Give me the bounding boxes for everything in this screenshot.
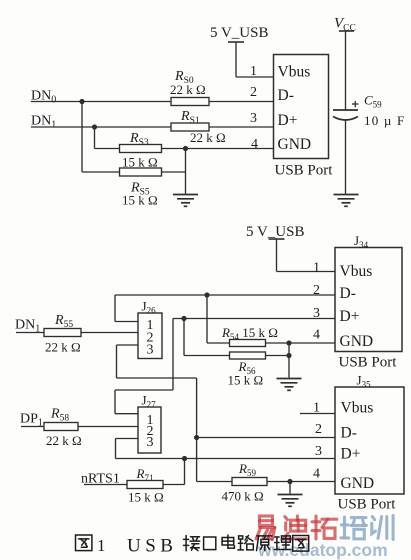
junction dot on D+ line xyxy=(181,316,186,321)
wire R55 to J26 pin2 xyxy=(81,332,138,334)
pin 3 number (J35) xyxy=(315,444,322,459)
svg-text:3: 3 xyxy=(315,444,322,459)
wire D- net line to J34 pin2 xyxy=(115,294,335,296)
pin 4 number (J35) xyxy=(313,467,320,482)
node DN1 label (top) xyxy=(31,114,56,131)
pin label D+ (P1) xyxy=(278,112,298,129)
svg-text:D+: D+ xyxy=(340,308,360,325)
resistor R55 xyxy=(44,313,81,355)
wire DP1 to R58 xyxy=(21,426,44,428)
wire J35 D- line xyxy=(197,437,335,439)
svg-text:470 k Ω: 470 k Ω xyxy=(222,489,264,504)
junction dot R59 right xyxy=(287,479,292,484)
resistor R58 xyxy=(44,407,82,449)
svg-text:D-: D- xyxy=(278,87,294,104)
power 5 V_USB (middle) xyxy=(246,224,305,272)
label USB Port (J34) xyxy=(339,355,398,371)
pin 3 number (J34) xyxy=(313,306,320,321)
svg-text:GND: GND xyxy=(278,136,312,153)
pin label D- (J34) xyxy=(340,285,356,302)
wire D+ left drop x173 xyxy=(172,319,174,391)
svg-text:22 k Ω: 22 k Ω xyxy=(170,82,206,97)
power VCC rail xyxy=(334,16,356,111)
junction dot on J35 D+ line xyxy=(182,456,187,461)
svg-text:22 k Ω: 22 k Ω xyxy=(190,130,226,145)
pin 1 number (J35) xyxy=(313,401,320,416)
pin 1 number (J34) xyxy=(313,261,320,276)
wire DN1 line xyxy=(31,126,171,128)
svg-text:22 k Ω: 22 k Ω xyxy=(46,433,82,448)
wire D- dot drop to R54 xyxy=(207,295,230,343)
wire RS5 to ground stem xyxy=(162,171,186,173)
wire J27 pin1 riser xyxy=(115,390,138,414)
svg-text:D-: D- xyxy=(341,425,357,442)
resistor RS5 xyxy=(120,168,162,208)
pin 4 number (P1) xyxy=(251,137,258,152)
svg-text:1: 1 xyxy=(250,64,257,79)
wire J35 D+ line xyxy=(116,458,336,460)
wire R58 to J27 pin2 xyxy=(78,426,138,428)
pin 4 number (J34) xyxy=(313,328,320,343)
wire DN1 dot to RS3 xyxy=(95,127,120,149)
wire J26 pin3 drop xyxy=(117,345,139,378)
junction dot R54 right xyxy=(286,340,291,345)
wire R71 to D+ dot riser xyxy=(163,459,185,485)
node DN1 label (middle) xyxy=(15,318,40,335)
svg-text:15 k Ω: 15 k Ω xyxy=(128,490,164,505)
pin 1 number (P1) xyxy=(250,64,257,79)
resistor RS0 xyxy=(170,69,209,106)
wire DN0 line xyxy=(31,101,171,103)
node DP1 label xyxy=(20,412,43,429)
node nRTS1 label xyxy=(81,472,120,487)
svg-text:15 k Ω: 15 k Ω xyxy=(122,193,158,208)
svg-text:USB Port: USB Port xyxy=(275,163,334,179)
pin 2 number (P1) xyxy=(250,85,257,100)
wire C59 to ground xyxy=(345,121,347,194)
svg-text:4: 4 xyxy=(313,328,320,343)
wire J26 pin1 riser xyxy=(115,295,138,322)
caption figure title xyxy=(76,535,309,557)
wire ground stem 4 xyxy=(289,482,291,494)
label J35 xyxy=(357,373,372,390)
pin 2 number (J34) xyxy=(313,283,320,298)
label J26 xyxy=(142,299,157,316)
wire H2 to J27 pin1 xyxy=(115,389,173,391)
wire RS0 to pin2 xyxy=(209,101,274,103)
junction dot right of RS3 xyxy=(183,146,188,151)
wire GND junction to J34 pin4 xyxy=(289,342,335,344)
node DN0 label xyxy=(31,89,56,106)
svg-text:USB Port: USB Port xyxy=(338,497,397,513)
wire R56 to GND junction xyxy=(266,355,290,357)
label USB Port (J35) xyxy=(338,497,397,513)
pin label GND (J35) xyxy=(341,475,375,492)
pin label D- (J35) xyxy=(341,425,357,442)
resistor RS3 xyxy=(120,131,162,170)
svg-text:2: 2 xyxy=(250,85,257,100)
label USB Port (P1) xyxy=(275,163,334,179)
USB port P1 box xyxy=(274,55,329,159)
connector J27 box xyxy=(138,407,161,453)
wire RS1 to pin3 xyxy=(209,126,274,128)
ground under RS3/RS5 xyxy=(173,195,198,207)
wire J27 pin3 drop xyxy=(116,439,139,459)
svg-text:15 k Ω: 15 k Ω xyxy=(228,373,264,388)
junction dot on DN1 line xyxy=(92,124,97,129)
svg-text:Vbus: Vbus xyxy=(341,400,374,417)
svg-text:D-: D- xyxy=(340,285,356,302)
wire riser to R59 xyxy=(197,481,232,483)
wire J35 pin1 stub xyxy=(300,413,335,415)
wire D+ dot drop to R56 xyxy=(184,319,230,356)
capacitor C59 xyxy=(333,93,405,129)
power 5 V_USB (top) xyxy=(210,25,269,77)
pin 2 number (J35) xyxy=(315,422,322,437)
resistor R56 xyxy=(228,352,266,388)
svg-text:GND: GND xyxy=(341,475,375,492)
svg-text:3: 3 xyxy=(147,435,154,450)
svg-text:4: 4 xyxy=(251,137,258,152)
wire DN1 to R55 xyxy=(16,332,44,334)
resistor RS1 xyxy=(171,109,226,145)
svg-text:1: 1 xyxy=(97,536,106,555)
pin label GND (P1) xyxy=(278,136,312,153)
svg-text:3: 3 xyxy=(250,111,257,126)
svg-text:GND: GND xyxy=(340,333,374,350)
junction dot R56 right xyxy=(286,353,291,358)
svg-text:1: 1 xyxy=(313,401,320,416)
pin label Vbus (J35) xyxy=(341,400,374,417)
svg-text:4: 4 xyxy=(313,467,320,482)
wire DN0 dot to RS5 xyxy=(82,102,120,173)
svg-text:Vbus: Vbus xyxy=(278,64,311,81)
svg-text:1: 1 xyxy=(313,261,320,276)
svg-text:15 k Ω: 15 k Ω xyxy=(122,155,158,170)
wire R59 to GND junction xyxy=(267,481,290,483)
svg-text:2: 2 xyxy=(313,283,320,298)
ground under R59 xyxy=(278,495,303,507)
pin label D- (P1) xyxy=(278,87,294,104)
resistor R71 xyxy=(127,466,164,505)
label J34 xyxy=(354,233,369,250)
pin label Vbus (P1) xyxy=(278,64,311,81)
wire nRTS1 to R71 xyxy=(84,484,127,486)
junction dot on DN0 line xyxy=(79,99,84,104)
connector J34 box xyxy=(335,248,402,352)
wire GND junction to J35 pin4 xyxy=(290,481,335,483)
pin label D+ (J34) xyxy=(340,308,360,325)
svg-text:22 k Ω: 22 k Ω xyxy=(45,340,81,355)
svg-text:5 V_USB: 5 V_USB xyxy=(210,25,269,41)
wire 5V to port1 pin1 xyxy=(236,76,274,78)
wire riser to J35 D- and R59 xyxy=(196,378,198,482)
junction dot on D- line xyxy=(204,292,209,297)
connector J26 box xyxy=(138,313,162,359)
watermark blue url xyxy=(257,540,388,560)
pin 3 number (P1) xyxy=(250,111,257,126)
label J27 xyxy=(142,393,157,410)
svg-text:Vbus: Vbus xyxy=(340,263,373,280)
svg-text:10 µ F: 10 µ F xyxy=(364,113,405,128)
wire D+ net line to J34 pin3 xyxy=(173,318,335,320)
pin label D+ (J35) xyxy=(341,446,361,463)
wire 5V to J34 pin1 xyxy=(277,271,336,273)
svg-text:D+: D+ xyxy=(278,112,298,129)
wire RS3 to ground junction and pin4 xyxy=(162,148,274,150)
svg-text:2: 2 xyxy=(315,422,322,437)
pin digits J26 xyxy=(147,318,154,358)
svg-text:USB: USB xyxy=(127,536,177,557)
resistor R54 xyxy=(221,325,278,347)
wire R54 to GND junction xyxy=(266,342,290,344)
pin label Vbus (J34) xyxy=(340,263,373,280)
wire ground stem 3 xyxy=(288,343,290,378)
resistor R59 xyxy=(222,461,268,504)
svg-text:5 V_USB: 5 V_USB xyxy=(246,224,305,240)
svg-text:USB Port: USB Port xyxy=(339,355,398,371)
svg-text:D+: D+ xyxy=(341,446,361,463)
ground under VCC xyxy=(334,195,359,207)
wire H1 to J35 D- riser xyxy=(117,377,197,379)
wire ground stem 1 xyxy=(185,149,187,194)
pin label GND (J34) xyxy=(340,333,374,350)
ground under R54/R56 xyxy=(277,379,302,391)
connector J35 box xyxy=(335,387,404,494)
svg-text:3: 3 xyxy=(147,343,154,358)
junction dot on J35 D- line xyxy=(194,435,199,440)
watermark characters xyxy=(256,516,393,540)
pin digits J27 xyxy=(147,413,154,450)
